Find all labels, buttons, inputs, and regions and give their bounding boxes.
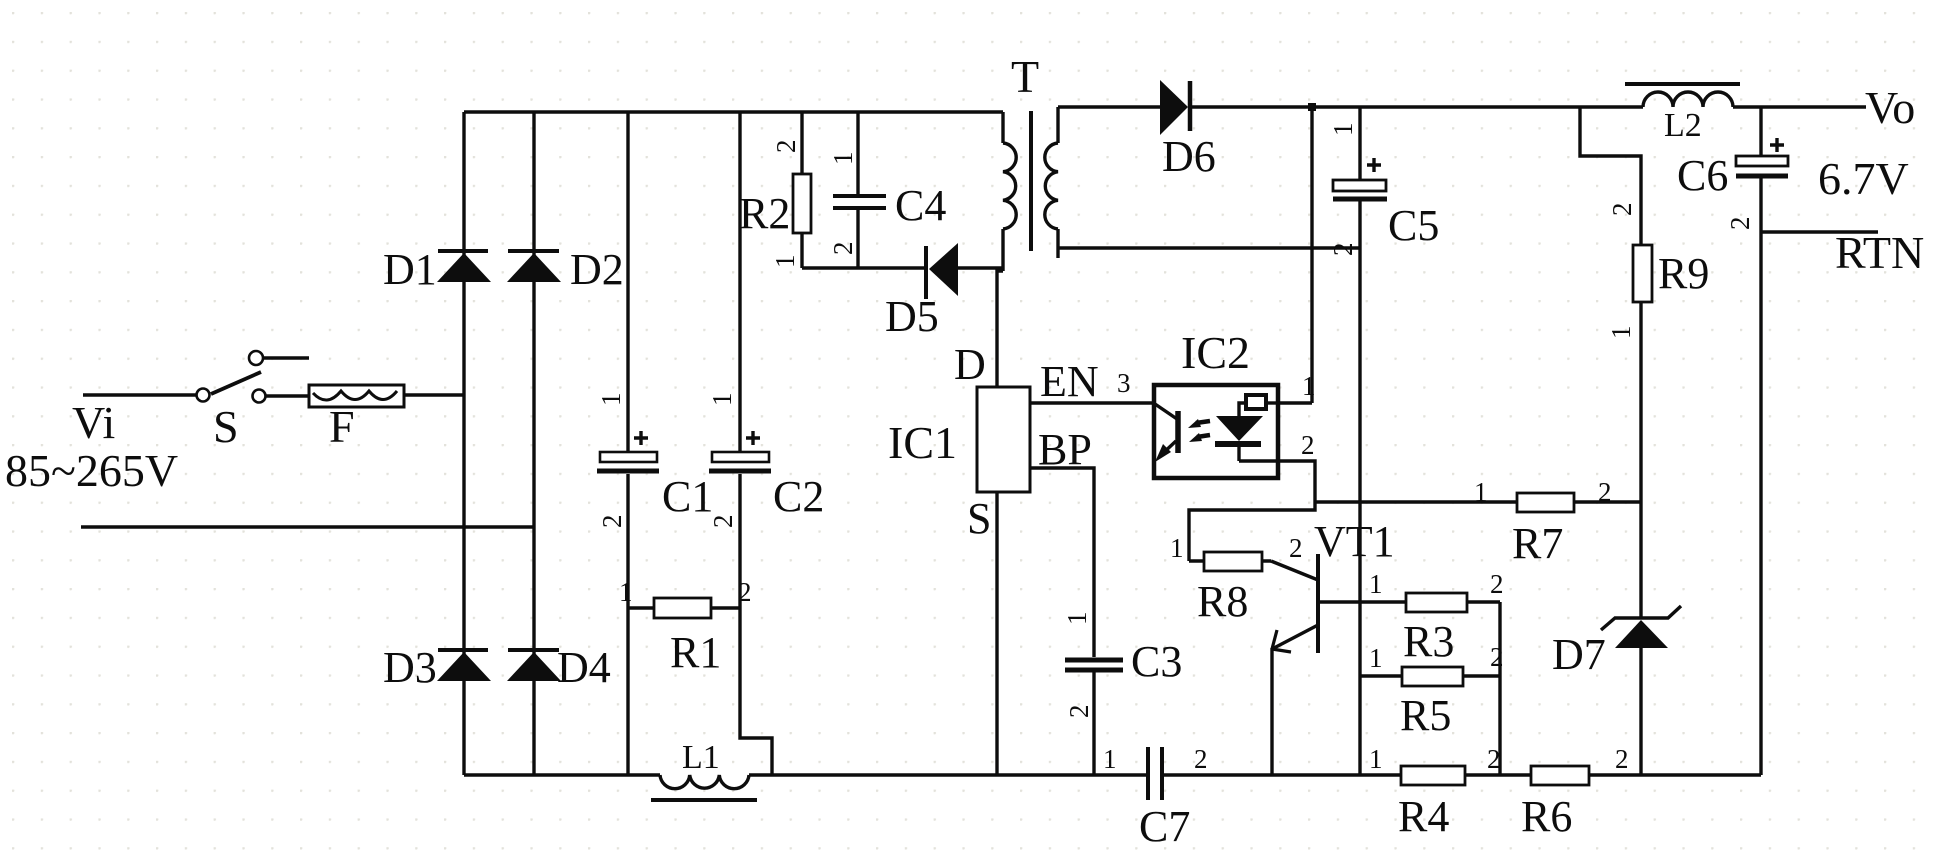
svg-text:C3: C3: [1131, 637, 1182, 686]
svg-text:1: 1: [828, 152, 858, 166]
svg-text:2: 2: [1607, 203, 1637, 217]
wire: switch to fuse: [266, 394, 309, 397]
svg-text:3: 3: [1117, 368, 1131, 398]
svg-text:1: 1: [596, 393, 626, 407]
svg-text:D2: D2: [570, 245, 624, 294]
IC2 light arrows: [1188, 419, 1210, 442]
svg-text:R6: R6: [1521, 792, 1572, 841]
wire: C2 column with jog to bottom rail: [740, 112, 772, 775]
svg-text:1: 1: [770, 255, 800, 269]
IC2 LED: [1215, 395, 1278, 461]
svg-text:EN: EN: [1040, 357, 1099, 406]
wire: input neutral line: [81, 525, 534, 528]
svg-text:R8: R8: [1197, 577, 1248, 626]
capacitor C3: [1065, 660, 1123, 670]
svg-text:S: S: [967, 494, 991, 543]
wire: output top rail D6 to L2: [1190, 105, 1643, 108]
svg-text:2: 2: [1328, 243, 1358, 257]
node junction at optocoupler feed: [1308, 103, 1316, 111]
wire: bottom rail C7 to right corner: [1162, 773, 1761, 776]
wire: jog from D5 node down to IC1 drain: [997, 271, 1003, 387]
svg-text:1: 1: [619, 577, 633, 607]
svg-text:2: 2: [828, 242, 858, 256]
svg-text:D4: D4: [557, 643, 611, 692]
capacitor C6: [1736, 138, 1788, 176]
svg-text:C4: C4: [895, 181, 946, 230]
wire: IC2 pin2 lead and loop to R8: [1189, 461, 1315, 561]
wire: IC2 pin1 lead: [1278, 401, 1312, 404]
svg-text:IC2: IC2: [1181, 327, 1250, 378]
diode D5: [926, 243, 958, 299]
svg-text:2: 2: [1487, 744, 1501, 774]
svg-text:2: 2: [1725, 217, 1755, 231]
svg-text:2: 2: [738, 577, 752, 607]
svg-text:2: 2: [1289, 533, 1303, 563]
svg-text:L1: L1: [682, 739, 720, 776]
wire: bottom rail L1 to C7: [749, 773, 1148, 776]
svg-text:F: F: [329, 401, 355, 452]
wire: L2 to Vo terminal: [1733, 105, 1866, 108]
svg-text:1: 1: [1369, 643, 1383, 673]
capacitor C1: [597, 431, 659, 471]
svg-text:C5: C5: [1388, 201, 1439, 250]
wire: R2 column from top rail: [800, 112, 803, 268]
transistor VT1: [1271, 554, 1318, 653]
svg-text:2: 2: [597, 515, 627, 529]
diode D4: [507, 650, 561, 681]
inductor L1: [651, 775, 757, 800]
capacitor C4: [833, 196, 886, 208]
transformer T primary winding: [1003, 112, 1016, 271]
svg-text:L2: L2: [1664, 107, 1702, 144]
svg-text:Vo: Vo: [1865, 82, 1915, 133]
wire: right bridge column D2/D4: [532, 112, 535, 775]
svg-text:R5: R5: [1400, 691, 1451, 740]
wire: R9 branch jog from top rail: [1580, 107, 1641, 245]
svg-text:2: 2: [1301, 430, 1315, 460]
wire: AC top rail (primary side): [464, 110, 1003, 113]
wire: snubber bottom line R2/C4 to D5: [802, 266, 924, 269]
svg-text:R2: R2: [739, 189, 790, 238]
IC2 phototransistor: [1155, 404, 1178, 462]
svg-text:6.7V: 6.7V: [1818, 153, 1909, 204]
fuse F: [309, 385, 404, 407]
resistor R7: [1517, 493, 1574, 512]
wire: VT1 emitter to bottom rail: [1270, 648, 1273, 775]
svg-text:D6: D6: [1162, 132, 1216, 181]
svg-text:R9: R9: [1658, 249, 1709, 298]
resistor R1 with leads: [628, 598, 740, 618]
diode D6: [1160, 80, 1190, 135]
resistor R3: [1406, 593, 1467, 612]
svg-text:RTN: RTN: [1835, 227, 1924, 278]
svg-text:BP: BP: [1038, 425, 1092, 474]
svg-text:T: T: [1011, 51, 1039, 102]
transformer T core: [1029, 111, 1033, 251]
svg-text:1: 1: [1474, 477, 1488, 507]
wire: R9 to feedback node and down to D7: [1639, 302, 1642, 617]
resistor R2: [793, 174, 811, 233]
svg-text:2: 2: [1615, 744, 1629, 774]
svg-text:IC1: IC1: [888, 417, 957, 468]
svg-text:D3: D3: [383, 643, 437, 692]
wire: IC1 source pin to bottom rail: [995, 492, 998, 775]
svg-text:1: 1: [1369, 744, 1383, 774]
wire: optocoupler pin1 drop line: [1310, 107, 1313, 403]
transformer T secondary winding: [1045, 107, 1058, 258]
capacitor C5: [1333, 158, 1387, 199]
svg-text:S: S: [213, 401, 239, 452]
inductor L2: [1625, 84, 1740, 107]
resistor R5: [1402, 667, 1463, 686]
svg-text:2: 2: [1064, 705, 1094, 719]
wire: fuse to bridge node: [404, 393, 465, 396]
wire: DC bottom rail left section: [464, 773, 660, 776]
svg-text:1: 1: [1606, 326, 1636, 340]
wire: C5 column: [1358, 107, 1361, 775]
svg-text:1: 1: [1328, 123, 1358, 137]
diode D2: [507, 251, 561, 282]
svg-text:R3: R3: [1403, 617, 1454, 666]
svg-text:D7: D7: [1552, 630, 1606, 679]
wire: D7 anode to bottom rail: [1639, 648, 1642, 775]
svg-text:C2: C2: [773, 472, 824, 521]
resistor R8 with leads: [1189, 552, 1271, 571]
wire: secondary top rail to D6: [1058, 105, 1160, 108]
svg-text:2: 2: [1598, 477, 1612, 507]
capacitor C2: [709, 431, 771, 471]
wire: secondary return rail to C5: [1058, 246, 1360, 249]
svg-text:1: 1: [1302, 371, 1316, 401]
zener diode D7: [1601, 606, 1681, 648]
svg-text:D5: D5: [885, 292, 939, 341]
switch S: [197, 351, 310, 403]
diode D1: [437, 251, 491, 282]
wire: R3/R5/R4 pin2 bus: [1498, 602, 1501, 775]
svg-text:R4: R4: [1398, 792, 1449, 841]
optocoupler IC2 box: [1154, 385, 1278, 478]
op IC1 box: [977, 387, 1030, 492]
capacitor C7 in bottom rail: [1148, 747, 1162, 800]
wire: RTN stub: [1761, 230, 1878, 233]
wire: BP line down to C3: [1030, 468, 1094, 775]
svg-text:Vi: Vi: [72, 397, 115, 448]
wire: VT1 collector row through R3: [1320, 600, 1500, 603]
wire: C6 column: [1759, 107, 1762, 775]
diode D3: [437, 650, 491, 681]
resistor R9: [1633, 245, 1652, 302]
svg-text:R1: R1: [670, 628, 721, 677]
svg-text:2: 2: [1490, 569, 1504, 599]
resistor R4: [1401, 766, 1465, 785]
svg-text:1: 1: [707, 393, 737, 407]
wire: D5 anode to primary bottom: [956, 266, 1003, 269]
svg-text:2: 2: [1194, 744, 1208, 774]
svg-text:1: 1: [1103, 744, 1117, 774]
svg-text:C1: C1: [662, 472, 713, 521]
svg-text:C7: C7: [1139, 802, 1190, 851]
wire: EN line IC1 to IC2: [1030, 401, 1154, 404]
wire: left bridge column D1/D3: [462, 112, 465, 775]
svg-text:D1: D1: [383, 245, 437, 294]
svg-text:R7: R7: [1512, 519, 1563, 568]
wire: C4 column from top rail: [856, 112, 859, 268]
svg-text:1: 1: [1369, 569, 1383, 599]
svg-text:85~265V: 85~265V: [5, 445, 178, 496]
wire: feedback line pin2 node to R7: [1315, 500, 1641, 503]
svg-text:D: D: [954, 340, 986, 389]
svg-text:C6: C6: [1677, 151, 1728, 200]
wire: input live line from Vi to switch: [83, 393, 196, 396]
svg-text:1: 1: [1170, 533, 1184, 563]
svg-text:1: 1: [1062, 612, 1092, 626]
wire: C1 column: [626, 112, 629, 775]
wire: R5 row: [1360, 674, 1500, 677]
svg-text:2: 2: [771, 140, 801, 154]
svg-text:VT1: VT1: [1314, 517, 1395, 566]
resistor R6: [1531, 766, 1589, 785]
svg-text:2: 2: [708, 515, 738, 529]
